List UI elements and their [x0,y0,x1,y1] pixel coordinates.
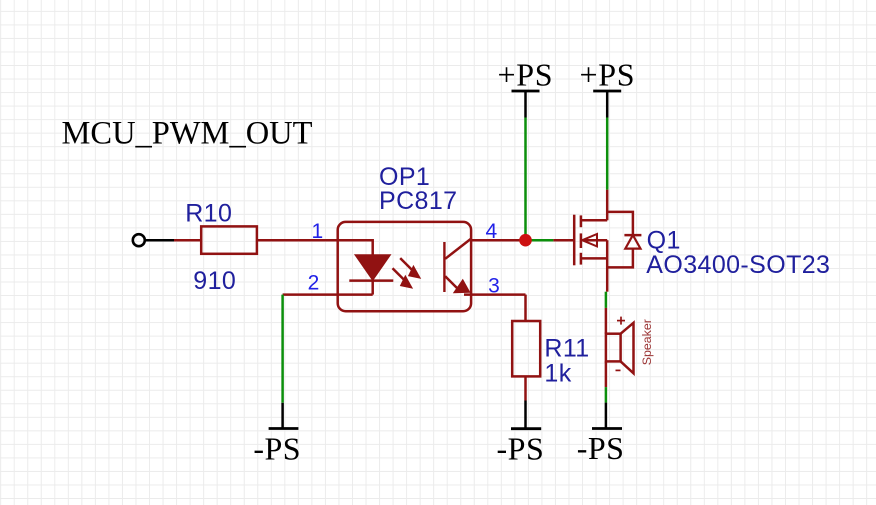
svg-text:+PS: +PS [498,56,554,92]
svg-text:1k: 1k [544,360,571,388]
svg-text:1: 1 [312,220,324,243]
svg-text:-PS: -PS [497,430,545,466]
svg-text:2: 2 [308,272,320,295]
svg-text:R11: R11 [544,335,589,363]
svg-text:MCU_PWM_OUT: MCU_PWM_OUT [62,116,313,152]
svg-text:+PS: +PS [580,56,636,92]
svg-text:PC817: PC817 [379,187,457,215]
svg-text:Speaker: Speaker [640,319,654,365]
svg-text:910: 910 [193,267,236,295]
svg-text:4: 4 [486,220,498,243]
svg-text:3: 3 [488,274,500,297]
svg-text:-PS: -PS [253,430,301,466]
svg-text:AO3400-SOT23: AO3400-SOT23 [646,251,830,279]
svg-text:R10: R10 [185,200,232,228]
svg-text:-PS: -PS [577,430,625,466]
